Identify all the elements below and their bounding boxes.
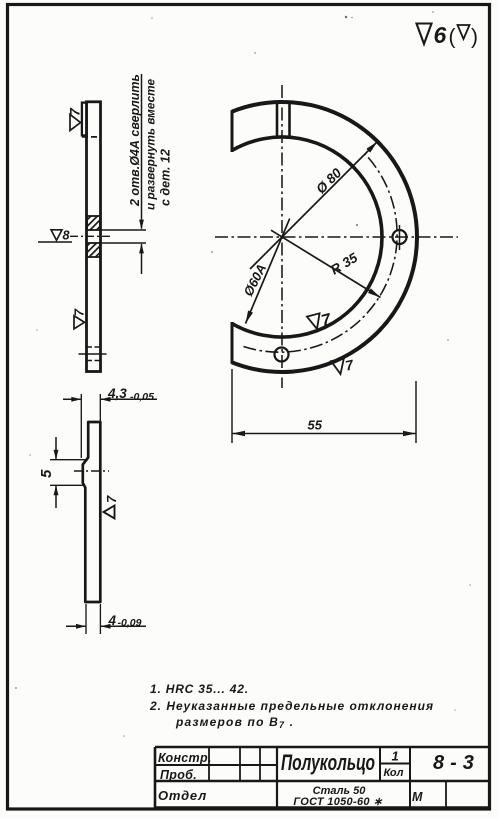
svg-text:7: 7 [104, 495, 119, 503]
svg-text:7: 7 [72, 308, 87, 316]
svg-text:): ) [471, 26, 478, 49]
svg-text:Полукольцо: Полукольцо [281, 751, 375, 776]
svg-text:4,3: 4,3 [107, 386, 127, 401]
svg-text:6: 6 [434, 22, 447, 48]
svg-text:8 - 3: 8 - 3 [433, 752, 474, 774]
svg-text:-0,09: -0,09 [118, 617, 142, 629]
svg-text:1. HRC 35... 42.: 1. HRC 35... 42. [150, 682, 249, 696]
svg-text:Кол: Кол [384, 767, 404, 779]
svg-text:(: ( [449, 26, 456, 49]
svg-text:-0,05: -0,05 [130, 391, 154, 403]
svg-text:М: М [412, 790, 423, 804]
svg-text:Проб.: Проб. [160, 768, 197, 782]
svg-text:5: 5 [38, 469, 55, 478]
svg-text:7: 7 [67, 107, 83, 116]
svg-text:2 отв.Ø4А сверлить: 2 отв.Ø4А сверлить [128, 74, 142, 207]
svg-text:4: 4 [108, 613, 117, 628]
svg-text:размеров по В7 .: размеров по В7 . [175, 715, 294, 730]
svg-text:1: 1 [392, 749, 399, 764]
svg-text:55: 55 [308, 418, 323, 433]
svg-text:Констр.: Констр. [158, 751, 212, 765]
svg-text:Отдел: Отдел [158, 788, 207, 803]
svg-text:и развернуть вместе: и развернуть вместе [144, 79, 158, 210]
svg-text:2. Неуказанные предельные отк: 2. Неуказанные предельные отклонения [149, 699, 434, 713]
svg-text:8: 8 [63, 228, 70, 242]
svg-text:с дет. 12: с дет. 12 [159, 149, 173, 206]
svg-text:ГОСТ 1050-60 ∗: ГОСТ 1050-60 ∗ [293, 796, 383, 808]
